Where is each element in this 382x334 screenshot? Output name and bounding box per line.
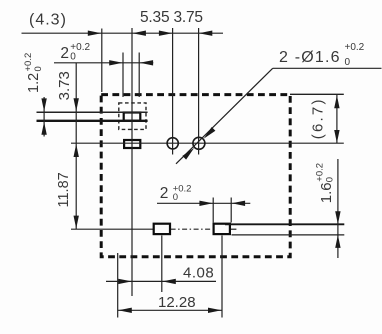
hole H1 xyxy=(167,138,178,149)
dimension line (6.7) xyxy=(336,95,338,143)
center line below P4 / 12.28 right extension xyxy=(221,236,223,318)
arrow 3.75 right outside xyxy=(199,31,213,36)
arrow 12.28 right inside xyxy=(208,308,222,313)
svg-text:4.08: 4.08 xyxy=(183,265,214,282)
label 1.6 +0.2/0 rotated xyxy=(314,163,335,203)
row2 center line xyxy=(71,142,344,144)
svg-text:12.28: 12.28 xyxy=(158,294,196,311)
extension line left edge (4.3) xyxy=(101,29,103,93)
dimension line 1.6 xyxy=(337,159,339,258)
center line below P3 xyxy=(161,236,163,293)
dimension line 1.2 xyxy=(43,97,45,137)
dimension line 4.08 xyxy=(106,280,216,282)
pad P1 dashed outline xyxy=(119,103,146,129)
svg-text:1.2: 1.2 xyxy=(26,73,42,93)
svg-text:0: 0 xyxy=(345,57,351,68)
svg-text:0: 0 xyxy=(173,192,178,203)
row3 center line left xyxy=(71,228,153,230)
pad P1 xyxy=(124,113,141,121)
svg-text:2: 2 xyxy=(60,45,69,62)
arrow 1.6 top outside xyxy=(335,211,340,224)
pad P4 xyxy=(214,224,230,234)
arrow 1.2 bottom outside xyxy=(41,122,46,135)
arrow 11.87 bottom xyxy=(74,216,79,229)
arrow 5.35 right xyxy=(159,31,173,36)
arrow hole leader upper xyxy=(204,127,216,139)
dimension line 2+0.2 bottom xyxy=(157,202,250,204)
arrow 4.08 right outside xyxy=(162,279,176,284)
svg-text:2: 2 xyxy=(160,185,169,202)
arrow 12.28 left inside xyxy=(118,308,132,313)
top chain dimension line xyxy=(22,32,224,34)
label 3.73 rotated xyxy=(56,71,73,100)
extension lines pad P4 width xyxy=(212,198,214,223)
arrow 2 top left outside xyxy=(109,60,123,65)
dimension line 2+0.2 top xyxy=(54,62,153,64)
label 1.2 +0.2/0 rotated xyxy=(23,53,44,93)
label 11.87 rotated xyxy=(56,172,72,207)
dimension line 3.73 / 11.87 xyxy=(75,63,77,229)
arrowheads xyxy=(41,31,340,313)
extension line pad P4 bottom edge xyxy=(232,234,345,236)
pin line row1 top edge xyxy=(37,111,148,113)
svg-text:(6.7): (6.7) xyxy=(310,97,327,139)
arrow 2 bottom right outside xyxy=(232,201,246,206)
pin line row1 bottom edge xyxy=(37,120,148,122)
arrow 3.73 bottom / 11.87 top xyxy=(74,144,79,157)
svg-text:3.73: 3.73 xyxy=(56,71,73,100)
svg-text:1.6: 1.6 xyxy=(318,182,335,203)
arrow 1.2 top outside xyxy=(41,98,46,111)
svg-text:11.87: 11.87 xyxy=(56,172,72,207)
extension line pad P4 top edge xyxy=(225,223,344,225)
row3 center line right stub xyxy=(231,228,236,230)
svg-text:(4.3): (4.3) xyxy=(29,12,67,29)
leader line 2-diam1.6 diagonal xyxy=(176,68,273,164)
extension lines pad P1 width xyxy=(122,53,124,98)
dimension line 12.28 xyxy=(118,309,222,311)
component outline dashed rectangle xyxy=(101,95,290,257)
svg-text:5.35 3.75: 5.35 3.75 xyxy=(140,9,203,26)
pad P2 xyxy=(124,140,140,148)
arrow 3.73 top outside xyxy=(74,98,79,111)
arrow 6.7 bottom inside xyxy=(334,130,339,143)
arrow 6.7 top inside xyxy=(334,95,339,108)
svg-text:2 -Ø1.6: 2 -Ø1.6 xyxy=(279,49,341,66)
arrow 5.35 left xyxy=(132,31,146,36)
center line through H2 xyxy=(198,28,200,155)
center line through P1 P2 xyxy=(131,28,133,296)
svg-text:0: 0 xyxy=(324,177,335,182)
arrow 1.6 bottom outside xyxy=(335,235,340,248)
arrow 4.08 left outside xyxy=(118,279,132,284)
svg-text:0: 0 xyxy=(70,51,76,62)
svg-text:0: 0 xyxy=(33,66,44,71)
label (6.7) rotated xyxy=(310,97,327,139)
arrow 2 top right outside xyxy=(140,60,154,65)
center line through H1 xyxy=(172,28,174,155)
extension line 12.28 left xyxy=(117,253,119,318)
pad P3 xyxy=(154,224,170,234)
extension line top edge (6.7) xyxy=(290,93,344,95)
hole H2 xyxy=(193,137,205,149)
leader line 2-diam1.6 horizontal xyxy=(273,67,382,69)
svg-text:+0.2: +0.2 xyxy=(345,42,365,53)
arrow hole leader lower xyxy=(182,148,194,160)
row3 center line middle dash-dot xyxy=(171,228,213,230)
arrow 2 bottom left outside xyxy=(199,201,213,206)
arrow 4.3 left outside xyxy=(88,31,102,36)
